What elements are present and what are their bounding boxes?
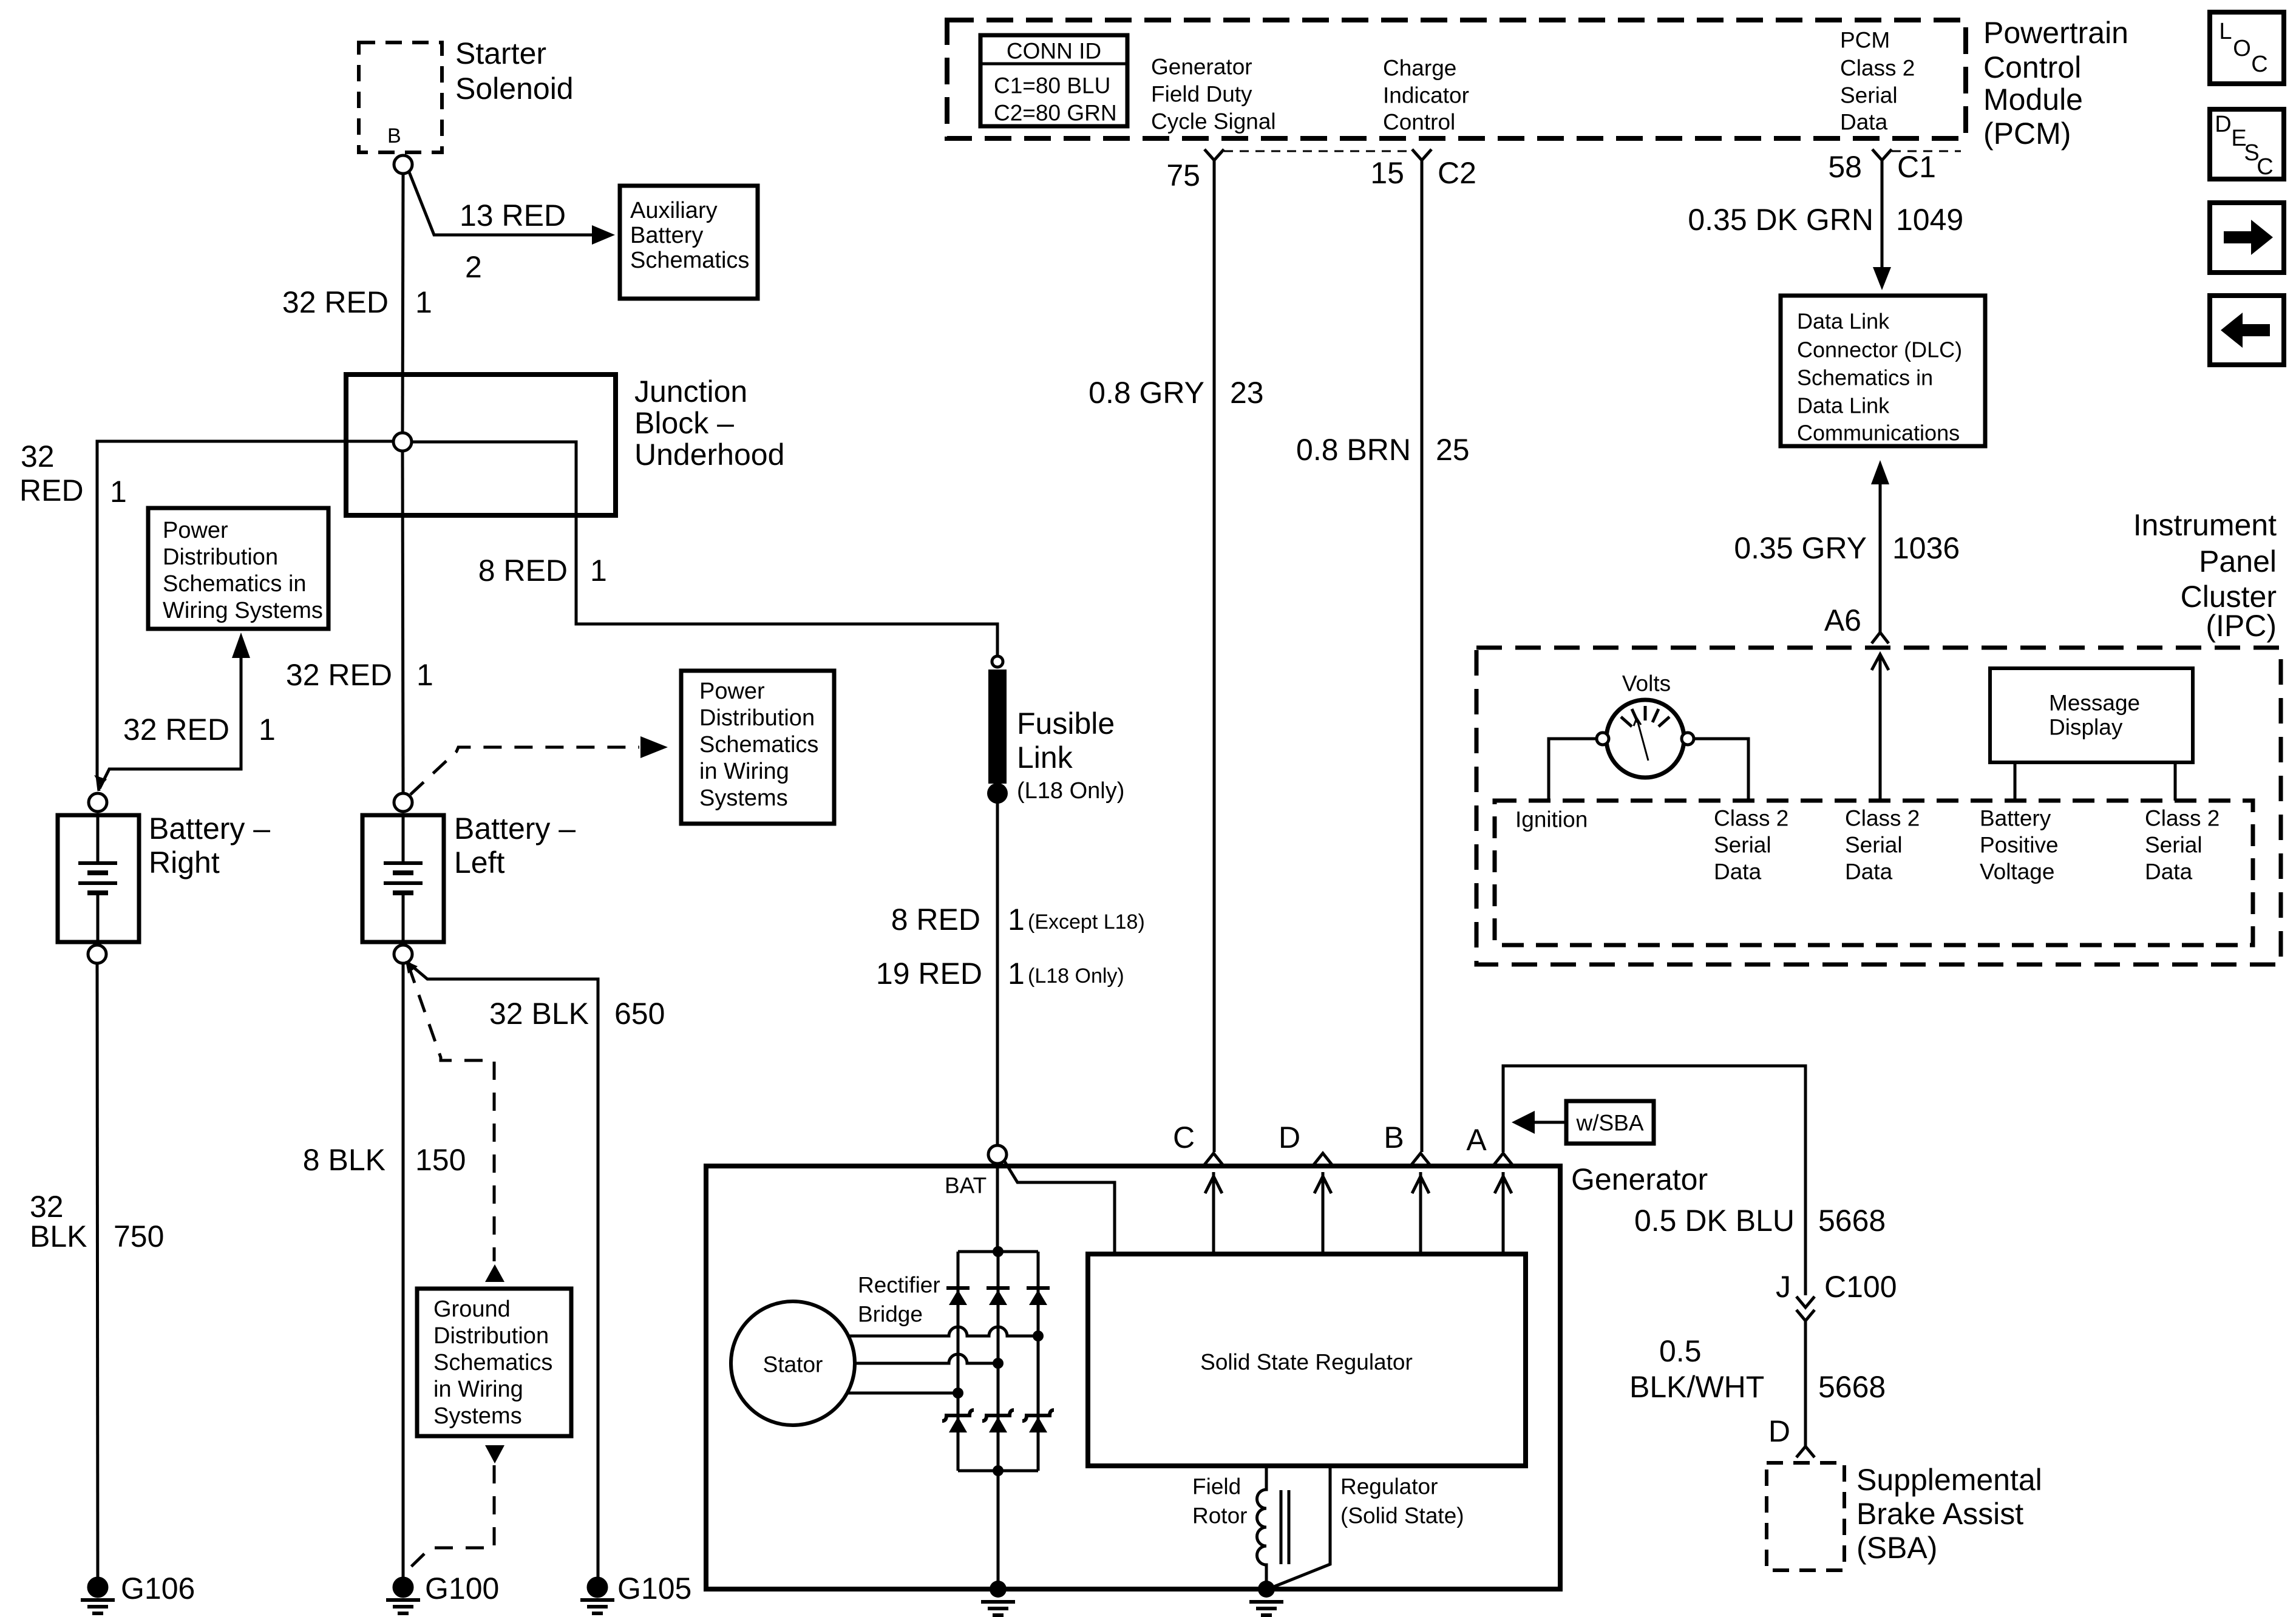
connector C1 dashed line at pin 58 <box>1892 151 1961 152</box>
connector C2 dashed line between pins 75 and 15 <box>1224 151 1412 152</box>
svg-text:(IPC): (IPC) <box>2206 609 2277 643</box>
message display box <box>1990 668 2193 762</box>
power distribution schematics box 2 <box>681 671 834 824</box>
svg-text:Field: Field <box>1192 1474 1241 1499</box>
svg-text:Class 2: Class 2 <box>1845 806 1920 831</box>
wire 0.5 BLK/WHT circuit 5668 <box>1804 1321 1807 1446</box>
svg-text:Ground: Ground <box>433 1297 511 1322</box>
field rotor coil <box>1257 1466 1267 1583</box>
data link connector DLC box <box>1781 296 1985 446</box>
SBA pin D chevron <box>1796 1446 1815 1457</box>
ground G106 <box>89 1578 107 1596</box>
svg-text:Bridge: Bridge <box>858 1302 923 1327</box>
svg-text:Battery: Battery <box>630 223 703 248</box>
svg-text:Connector (DLC): Connector (DLC) <box>1797 337 1962 362</box>
svg-text:BLK: BLK <box>30 1219 87 1253</box>
rectifier bridge top bus <box>958 1250 1038 1253</box>
svg-text:Cycle Signal: Cycle Signal <box>1151 109 1276 134</box>
svg-text:Stator: Stator <box>763 1352 823 1377</box>
wire 32 BLK 750: battery-right to G106 <box>97 963 98 1578</box>
svg-text:Data Link: Data Link <box>1797 393 1890 418</box>
wire 8 RED / 19 RED to generator BAT <box>996 793 999 1145</box>
message display leg to class 2 serial data <box>2174 762 2177 801</box>
wire 0.8 GRY circuit 23 (PCM 75 to generator C) <box>1213 160 1216 1152</box>
wire BAT terminal to rectifier bridge <box>996 1164 999 1252</box>
arrowhead down below ground distribution box <box>485 1445 504 1463</box>
svg-text:Battery –: Battery – <box>149 812 270 846</box>
volts gauge circle <box>1606 700 1684 778</box>
svg-text:Class 2: Class 2 <box>2145 806 2220 831</box>
svg-text:(L18 Only): (L18 Only) <box>1017 778 1124 804</box>
svg-text:32 RED: 32 RED <box>123 713 229 747</box>
w/SBA tag box <box>1566 1101 1654 1144</box>
svg-text:Control: Control <box>1983 50 2081 84</box>
svg-text:32 RED: 32 RED <box>286 658 392 692</box>
svg-text:Distribution: Distribution <box>163 544 278 570</box>
svg-text:Generator: Generator <box>1571 1162 1708 1196</box>
svg-text:Data Link: Data Link <box>1797 309 1890 334</box>
svg-text:(SBA): (SBA) <box>1856 1531 1937 1565</box>
supplemental brake assist dashed box <box>1767 1463 1844 1570</box>
svg-text:Schematics: Schematics <box>630 248 749 273</box>
SEC4 <box>1476 296 2281 964</box>
svg-text:Class 2: Class 2 <box>1714 806 1788 831</box>
wire: junction block left branch (32 RED) <box>97 441 393 791</box>
svg-text:32 BLK: 32 BLK <box>489 997 589 1031</box>
svg-text:(Except L18): (Except L18) <box>1028 910 1145 934</box>
svg-text:Block –: Block – <box>634 406 734 440</box>
SEC2 <box>947 20 1966 1152</box>
node B circle (starter solenoid terminal) <box>394 155 412 174</box>
svg-text:A6: A6 <box>1824 603 1861 637</box>
svg-text:Solenoid: Solenoid <box>455 72 574 106</box>
svg-text:C2=80 GRN: C2=80 GRN <box>994 101 1117 126</box>
wire 32 BLK 650: battery-left to G105 <box>408 963 598 1578</box>
forward arrow navigation box <box>2210 203 2284 273</box>
DESC navigation box <box>2210 109 2284 179</box>
svg-text:0.8 GRY: 0.8 GRY <box>1089 376 1204 410</box>
svg-text:75: 75 <box>1166 158 1200 192</box>
svg-text:Serial: Serial <box>2145 833 2203 858</box>
svg-text:Display: Display <box>2049 715 2123 740</box>
svg-text:Power: Power <box>699 679 765 704</box>
svg-text:Wiring Systems: Wiring Systems <box>163 598 323 623</box>
svg-text:15: 15 <box>1370 156 1404 190</box>
battery left cell symbol <box>402 815 405 862</box>
internal wire to pin B with arrowhead <box>1419 1172 1422 1254</box>
wire BAT branch to solid state regulator <box>1004 1161 1115 1254</box>
battery right box <box>58 815 139 942</box>
battery right terminals <box>89 793 107 812</box>
rectifier bridge middle leg <box>997 1252 1000 1471</box>
IPC pin A6 chevron <box>1872 632 1889 643</box>
LOC navigation box <box>2210 12 2284 84</box>
svg-text:Instrument: Instrument <box>2133 508 2277 542</box>
svg-text:L: L <box>2219 19 2232 44</box>
power distribution schematics box 1 <box>148 508 328 629</box>
svg-text:Right: Right <box>149 846 220 880</box>
message display leg to battery positive voltage <box>2014 762 2017 801</box>
svg-text:in Wiring: in Wiring <box>699 759 789 784</box>
svg-text:Battery –: Battery – <box>454 812 576 846</box>
wire: junction inner branch (8 RED) <box>412 442 997 657</box>
svg-text:Field Duty: Field Duty <box>1151 82 1252 107</box>
svg-text:J: J <box>1776 1270 1791 1304</box>
svg-text:Serial: Serial <box>1840 83 1898 108</box>
svg-text:25: 25 <box>1436 433 1470 467</box>
svg-text:Panel: Panel <box>2199 544 2277 578</box>
svg-text:D: D <box>1768 1414 1790 1448</box>
regulator output leg to ground <box>1272 1466 1330 1587</box>
svg-text:32: 32 <box>21 439 55 473</box>
svg-text:Rectifier: Rectifier <box>858 1273 940 1298</box>
svg-text:Systems: Systems <box>699 785 788 811</box>
svg-text:Control: Control <box>1383 110 1455 135</box>
generator internal ground at field rotor <box>1258 1581 1275 1598</box>
field rotor core lines <box>1280 1490 1283 1564</box>
svg-text:1: 1 <box>416 658 433 692</box>
svg-text:750: 750 <box>114 1219 164 1253</box>
ground G105 <box>588 1578 606 1596</box>
svg-text:G106: G106 <box>121 1571 195 1605</box>
svg-text:58: 58 <box>1828 150 1862 184</box>
svg-text:RED: RED <box>19 473 84 507</box>
battery right cell symbol <box>97 815 100 862</box>
svg-text:B: B <box>387 124 401 147</box>
generator pin B chevron <box>1411 1153 1430 1165</box>
svg-text:Powertrain: Powertrain <box>1983 16 2128 50</box>
wire rectifier to generator case ground <box>997 1471 1000 1589</box>
svg-text:(PCM): (PCM) <box>1983 117 2071 151</box>
phase junction dots <box>1033 1331 1044 1341</box>
wire 0.35 GRY circuit 1036 (A6 to DLC) <box>1879 484 1882 632</box>
svg-text:C100: C100 <box>1824 1270 1897 1304</box>
svg-text:Battery: Battery <box>1980 806 2051 831</box>
stator winding circle <box>731 1301 855 1425</box>
svg-text:1: 1 <box>590 554 607 588</box>
wire: starter B terminal to junction block <box>402 174 403 433</box>
pin 15 connector chevron <box>1412 149 1432 160</box>
svg-text:1036: 1036 <box>1892 531 1960 565</box>
svg-text:C: C <box>2257 154 2273 180</box>
dashed ground reference wire battery-left to ground distribution box <box>409 966 494 1261</box>
starter solenoid (dashed box) <box>359 42 442 152</box>
junction block - underhood box <box>346 375 616 515</box>
svg-text:650: 650 <box>614 997 665 1031</box>
connector C100 chevrons (pin J) <box>1796 1297 1815 1307</box>
wire 0.5 DK BLU from generator A <box>1503 1066 1805 1295</box>
volts gauge needle <box>1637 718 1648 761</box>
svg-text:Data: Data <box>1714 859 1762 884</box>
svg-text:Voltage: Voltage <box>1980 859 2054 884</box>
fusible link body (L18 only) <box>988 670 1007 784</box>
svg-text:Schematics: Schematics <box>699 732 818 758</box>
svg-text:Communications: Communications <box>1797 421 1960 446</box>
volts gauge terminals <box>1597 733 1609 745</box>
svg-text:Rotor: Rotor <box>1192 1503 1247 1528</box>
svg-text:Link: Link <box>1017 741 1073 775</box>
svg-text:1: 1 <box>259 713 276 747</box>
svg-text:Module: Module <box>1983 83 2083 117</box>
svg-text:C1=80 BLU: C1=80 BLU <box>994 73 1110 98</box>
internal wire to pin A with arrowhead <box>1502 1172 1505 1254</box>
svg-text:Systems: Systems <box>433 1403 522 1429</box>
svg-text:Schematics: Schematics <box>433 1350 552 1375</box>
arrowhead up above ground distribution box <box>485 1264 504 1282</box>
small arrowhead at battery-right positive terminal <box>94 775 107 786</box>
diode 1 (top row) <box>946 1286 970 1290</box>
arrowhead into power distribution box 2 <box>640 736 668 758</box>
svg-text:Junction: Junction <box>634 375 747 408</box>
svg-text:Schematics in: Schematics in <box>163 571 307 597</box>
wire arrow up into power distribution box 1 <box>100 658 241 788</box>
svg-text:8 BLK: 8 BLK <box>303 1143 385 1177</box>
arrowhead into auxiliary battery schematics box <box>592 225 615 245</box>
svg-text:Power: Power <box>163 518 228 543</box>
svg-text:1: 1 <box>1008 957 1025 991</box>
internal wire to pin D with arrowhead <box>1322 1172 1325 1254</box>
svg-text:0.5: 0.5 <box>1659 1334 1702 1368</box>
svg-text:1: 1 <box>110 475 127 509</box>
arrowhead into DLC box <box>1873 267 1891 290</box>
rectifier bridge right leg <box>1037 1252 1040 1471</box>
IPC internal class 2 serial data wire with arrowhead <box>1879 657 1882 801</box>
svg-text:Class 2: Class 2 <box>1840 56 1915 81</box>
rectifier bridge bottom bus <box>958 1470 1038 1473</box>
battery left terminals <box>394 793 412 812</box>
svg-text:32 RED: 32 RED <box>282 285 389 319</box>
rectifier bridge left leg <box>957 1252 960 1471</box>
svg-text:1: 1 <box>415 285 432 319</box>
generator pin C chevron <box>1204 1153 1223 1165</box>
pin 75 connector chevron <box>1204 149 1224 160</box>
stator phase wire 3 <box>847 1392 958 1395</box>
svg-text:Starter: Starter <box>455 36 546 70</box>
svg-text:19 RED: 19 RED <box>876 957 982 991</box>
svg-text:C1: C1 <box>1897 150 1936 184</box>
svg-text:Data: Data <box>1845 859 1893 884</box>
svg-text:1049: 1049 <box>1896 203 1963 237</box>
svg-text:C2: C2 <box>1438 156 1476 190</box>
svg-text:23: 23 <box>1230 376 1264 410</box>
svg-text:Generator: Generator <box>1151 55 1252 80</box>
wire volts gauge to class 2 serial data <box>1694 739 1748 801</box>
svg-text:Distribution: Distribution <box>699 705 815 731</box>
zener diode 3 (bottom row) <box>1022 1410 1054 1421</box>
svg-text:Brake Assist: Brake Assist <box>1856 1497 2023 1531</box>
ground G100 <box>394 1578 412 1596</box>
svg-text:C: C <box>2251 52 2267 77</box>
svg-text:32: 32 <box>30 1190 64 1224</box>
generator pin A chevron <box>1493 1153 1513 1165</box>
svg-text:(L18 Only): (L18 Only) <box>1028 964 1124 988</box>
wire 0.35 DK GRN circuit 1049 (PCM 58 to DLC) <box>1881 160 1884 268</box>
svg-text:13 RED: 13 RED <box>460 198 566 232</box>
svg-text:B: B <box>1384 1120 1404 1154</box>
IPC inner dashed box <box>1495 801 2253 945</box>
wire volts gauge to ignition <box>1549 739 1597 801</box>
fusible link bottom junction dot <box>987 783 1008 804</box>
stator phase wire 2 with hop <box>855 1354 998 1363</box>
svg-text:G105: G105 <box>617 1571 691 1605</box>
svg-text:5668: 5668 <box>1818 1204 1886 1238</box>
svg-text:0.8 BRN: 0.8 BRN <box>1296 433 1411 467</box>
svg-text:in Wiring: in Wiring <box>433 1377 523 1402</box>
svg-text:5668: 5668 <box>1818 1370 1886 1404</box>
svg-text:CONN ID: CONN ID <box>1007 39 1101 64</box>
wire 13 RED to auxiliary battery schematics <box>409 171 593 235</box>
back arrow navigation box <box>2210 296 2284 365</box>
small arrowhead at battery-left negative terminal <box>406 961 418 974</box>
svg-text:Data: Data <box>1840 110 1888 135</box>
svg-text:Fusible: Fusible <box>1017 707 1115 741</box>
svg-text:Left: Left <box>454 846 505 880</box>
svg-text:(Solid State): (Solid State) <box>1340 1503 1464 1528</box>
volts gauge tick marks <box>1621 717 1632 727</box>
svg-text:Serial: Serial <box>1845 833 1903 858</box>
generator pin D chevron <box>1313 1153 1333 1165</box>
battery left box <box>362 815 444 942</box>
solid state regulator box <box>1088 1254 1526 1466</box>
svg-text:2: 2 <box>465 250 482 284</box>
dashed ground reference wire ground distribution box to G100 <box>404 1465 494 1573</box>
svg-text:0.35 GRY: 0.35 GRY <box>1734 531 1867 565</box>
svg-text:O: O <box>2233 36 2251 61</box>
diode 2 (top row) <box>987 1286 1010 1290</box>
svg-text:C: C <box>1173 1120 1195 1154</box>
svg-text:Indicator: Indicator <box>1383 83 1469 108</box>
ground distribution schematics box <box>417 1289 571 1436</box>
svg-text:0.5 DK BLU: 0.5 DK BLU <box>1634 1204 1795 1238</box>
svg-text:Charge: Charge <box>1383 56 1456 81</box>
bus junction dots <box>993 1246 1004 1257</box>
svg-text:Distribution: Distribution <box>433 1323 549 1349</box>
svg-text:Supplemental: Supplemental <box>1856 1463 2042 1497</box>
dashed reference wire battery-left to power distribution box 2 <box>410 747 639 795</box>
svg-text:BLK/WHT: BLK/WHT <box>1629 1370 1764 1404</box>
svg-text:Auxiliary: Auxiliary <box>630 198 718 223</box>
CONN ID header divider <box>980 63 1127 66</box>
svg-text:0.35 DK GRN: 0.35 DK GRN <box>1688 203 1873 237</box>
svg-text:Underhood: Underhood <box>634 438 784 472</box>
diode 3 (top row) <box>1027 1286 1050 1290</box>
wire 0.8 BRN circuit 25 (PCM 15 to generator B) <box>1421 160 1424 1152</box>
generator case ground at rectifier <box>990 1581 1007 1598</box>
svg-text:w/SBA: w/SBA <box>1575 1111 1643 1136</box>
pin 58 connector chevron <box>1872 149 1892 160</box>
generator BAT terminal circle <box>988 1145 1007 1164</box>
svg-text:Positive: Positive <box>1980 833 2059 858</box>
zener diode 1 (bottom row) <box>942 1410 974 1421</box>
arrowhead up into DLC box bottom <box>1871 460 1889 484</box>
svg-text:PCM: PCM <box>1840 28 1890 53</box>
PCM dashed box <box>947 20 1966 138</box>
internal wire to pin C with arrowhead <box>1212 1172 1215 1254</box>
zener diode 2 (bottom row) <box>982 1410 1014 1421</box>
IPC dashed box <box>1476 648 2281 964</box>
svg-text:8 RED: 8 RED <box>891 903 980 937</box>
wire 8 BLK: battery-left to G100 <box>402 963 405 1578</box>
generator box <box>706 1166 1560 1589</box>
svg-text:Solid State Regulator: Solid State Regulator <box>1200 1350 1413 1375</box>
svg-text:Data: Data <box>2145 859 2193 884</box>
CONN ID table box <box>980 35 1127 126</box>
svg-text:1: 1 <box>1008 903 1025 937</box>
SEC3 <box>706 1066 1844 1615</box>
junction node circle <box>393 433 412 451</box>
svg-text:BAT: BAT <box>945 1173 987 1198</box>
stator phase wire 1 with hops <box>848 1327 1038 1336</box>
w/SBA arrow pointing at generator A wire <box>1532 1121 1566 1124</box>
svg-text:150: 150 <box>415 1143 466 1177</box>
svg-text:Ignition: Ignition <box>1515 807 1588 832</box>
svg-text:Schematics in: Schematics in <box>1797 365 1933 390</box>
svg-text:D: D <box>2215 112 2231 137</box>
svg-text:Volts: Volts <box>1622 671 1671 696</box>
svg-text:Message: Message <box>2049 691 2140 716</box>
svg-text:8 RED: 8 RED <box>478 554 568 588</box>
svg-text:Serial: Serial <box>1714 833 1771 858</box>
svg-text:D: D <box>1279 1120 1300 1154</box>
svg-text:A: A <box>1466 1123 1487 1157</box>
auxiliary battery schematics box <box>620 186 758 299</box>
svg-text:Regulator: Regulator <box>1340 1474 1438 1499</box>
fusible link top terminal <box>992 656 1003 667</box>
svg-text:G100: G100 <box>425 1571 499 1605</box>
wire: junction block to battery-left top <box>402 451 403 793</box>
SEC1 <box>19 36 818 1605</box>
